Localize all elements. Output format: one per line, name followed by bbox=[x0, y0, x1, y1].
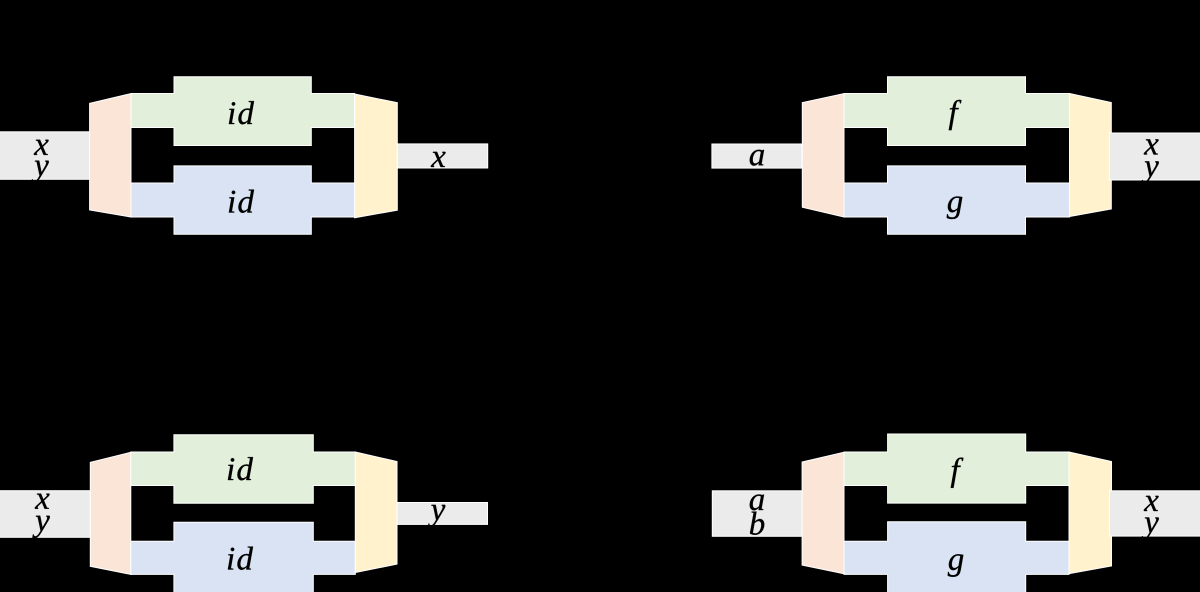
Q1 green wire with box id: left stub + box + right stub bbox=[131, 77, 355, 146]
Q3 input wire box labelled x,y bbox=[0, 491, 90, 538]
Q3 blue wire with box id: left stub + box + right stub bbox=[131, 522, 355, 592]
Q2 copy trapezoid (fan-out) bbox=[802, 94, 844, 217]
Q2 blue wire with box g: left stub + box + right stub bbox=[844, 166, 1070, 234]
Q2 merge trapezoid bbox=[1070, 94, 1112, 217]
Q4 blue wire with box g: left stub + box + right stub bbox=[844, 522, 1069, 592]
Q1 output wire box labelled x bbox=[397, 144, 487, 168]
Q3 green wire with box id: left stub + box + right stub bbox=[131, 435, 355, 504]
Q2 output wire box labelled x,y bbox=[1109, 133, 1200, 184]
Q4 green wire with box f: left stub + box + right stub bbox=[844, 434, 1069, 503]
Q1 input wire box labelled x,y bbox=[0, 132, 90, 183]
Q3 output wire box labelled y bbox=[397, 503, 488, 528]
Q2 input wire box labelled a bbox=[712, 144, 802, 168]
Q1 blue wire with box id: left stub + box + right stub bbox=[131, 166, 355, 234]
Q4 output wire box labelled x,y bbox=[1110, 491, 1200, 540]
Q4 merge trapezoid bbox=[1069, 452, 1112, 574]
Q1 copy trapezoid (fan-out) bbox=[90, 94, 131, 217]
Q2 green wire with box f: left stub + box + right stub bbox=[844, 77, 1070, 146]
Q1 merge trapezoid bbox=[355, 94, 398, 218]
Q4 input wire box labelled a,b bbox=[712, 491, 804, 537]
Q4 copy trapezoid (fan-out) bbox=[802, 452, 844, 574]
Q3 merge trapezoid bbox=[355, 452, 397, 573]
Q3 copy trapezoid (fan-out) bbox=[90, 452, 131, 574]
